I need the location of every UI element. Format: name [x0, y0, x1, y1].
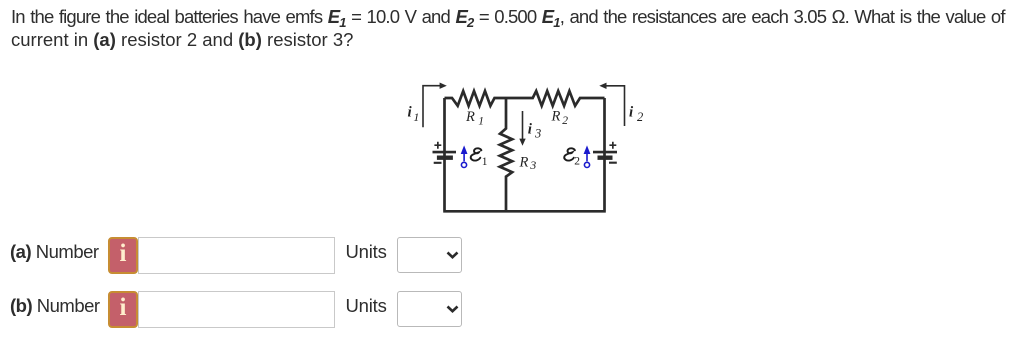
- svg-text:1: 1: [478, 115, 484, 127]
- svg-text:1: 1: [413, 110, 419, 124]
- svg-text:R: R: [465, 109, 475, 125]
- svg-text:3: 3: [529, 158, 536, 172]
- svg-text:R: R: [519, 154, 529, 170]
- svg-text:3: 3: [534, 126, 541, 140]
- svg-text:1: 1: [482, 156, 488, 168]
- svg-text:i: i: [528, 122, 533, 138]
- svg-text:i: i: [408, 105, 413, 121]
- svg-text:2: 2: [562, 115, 568, 127]
- svg-text:R: R: [551, 109, 561, 125]
- svg-text:i: i: [629, 105, 634, 121]
- svg-text:2: 2: [637, 110, 643, 124]
- svg-text:2: 2: [574, 155, 580, 167]
